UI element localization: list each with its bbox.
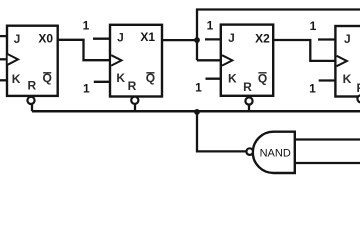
svg-text:R: R: [243, 80, 252, 94]
svg-text:1: 1: [83, 19, 90, 33]
flip-flop X3 label J: [344, 32, 351, 46]
flip-flop X1 clock triangle: [111, 55, 121, 65]
svg-text:1: 1: [309, 82, 316, 96]
wire X0 Q output to X1 clock: [56, 40, 111, 60]
wire reset rail: [32, 110, 360, 113]
flip-flop X2 reset bubble: [245, 97, 252, 104]
svg-text:J: J: [228, 31, 235, 45]
svg-text:X0: X0: [38, 31, 53, 45]
node A junction dot: [194, 37, 200, 43]
constant 1 at X3 J input: [310, 19, 317, 33]
svg-text:R: R: [27, 79, 36, 93]
flip-flop X0 label X0: [38, 31, 53, 45]
flip-flop X0 label J: [14, 32, 21, 46]
svg-text:K: K: [116, 71, 125, 85]
flip-flop X2 label Q-bar: [258, 71, 267, 85]
wire NAND output to reset rail node B: [197, 111, 247, 151]
constant 1 at X1 K input: [83, 82, 90, 96]
flip-flop X0 reset bubble: [27, 97, 34, 104]
wire NAND bottom input: [295, 162, 360, 164]
wire node A down to X2 clock: [197, 59, 222, 61]
flip-flop X0 label K: [12, 72, 21, 86]
svg-text:K: K: [228, 72, 237, 86]
flip-flop X3 label K: [343, 72, 352, 86]
flip-flop X3 reset bubble: [357, 95, 360, 102]
svg-text:X1: X1: [140, 30, 155, 44]
flip-flop X2 clock triangle: [222, 55, 232, 65]
flip-flop X0 box: [7, 26, 58, 96]
wire X2 Q output to X3 clock: [272, 40, 336, 61]
flip-flop X3 label R: [356, 81, 360, 95]
wire K input stub of X1: [94, 81, 111, 83]
flip-flop X1 label R: [128, 79, 137, 93]
wire J input to X0: [0, 35, 8, 37]
flip-flop X1 label X1: [140, 30, 155, 44]
svg-text:J: J: [344, 32, 351, 46]
flip-flop X2 box: [221, 25, 273, 96]
flip-flop X1 label K: [116, 71, 125, 85]
flip-flop X0 label R: [27, 79, 36, 93]
flip-flop X3 clock triangle: [337, 56, 347, 66]
svg-text:NAND: NAND: [260, 148, 291, 160]
constant 1 at X2 J input: [207, 19, 214, 33]
NAND gate U1 output bubble: [246, 148, 253, 155]
wire X1 reset bubble to reset rail: [134, 104, 136, 112]
svg-text:1: 1: [207, 19, 214, 33]
NAND gate U1 body (mirrored, pointing left): [253, 132, 295, 173]
flip-flop X0 clock triangle: [8, 54, 18, 65]
flip-flop X1 label J: [117, 31, 124, 45]
wire J input stub of X1: [93, 38, 111, 40]
flip-flop X1 reset bubble: [131, 97, 138, 104]
flip-flop X1 box: [110, 25, 162, 97]
svg-text:1: 1: [195, 81, 202, 95]
flip-flop X2 label R: [243, 80, 252, 94]
flip-flop X2 label J: [228, 31, 235, 45]
svg-text:J: J: [14, 32, 21, 46]
svg-text:1: 1: [83, 82, 90, 96]
constant 1 at X2 K input: [195, 81, 202, 95]
flip-flop X2 label K: [228, 72, 237, 86]
svg-text:K: K: [343, 72, 352, 86]
wire X1 Q output to node A: [161, 39, 197, 41]
wire K input stub of X3: [319, 79, 337, 81]
wire J input stub of X2: [205, 38, 222, 40]
wire X2 reset bubble to reset rail: [248, 105, 250, 112]
flip-flop X3 box: [335, 26, 360, 97]
node B junction dot on reset rail: [194, 109, 200, 115]
wire NAND top input: [295, 138, 360, 140]
flip-flop X1 label Q-bar: [146, 71, 155, 85]
flip-flop X2 label X2: [255, 31, 270, 45]
wire node A up to top rail going right: [197, 10, 360, 61]
constant 1 at X3 K input: [309, 82, 316, 96]
constant 1 at X1 J input: [83, 19, 90, 33]
svg-text:J: J: [117, 31, 124, 45]
wire K input to X0: [0, 79, 8, 81]
wire K input stub of X2: [206, 78, 223, 80]
svg-text:K: K: [12, 72, 21, 86]
svg-text:X2: X2: [255, 31, 270, 45]
wire clock input to X0: [0, 58, 8, 60]
svg-text:R: R: [356, 81, 360, 95]
flip-flop X0 label Q-bar: [43, 71, 52, 85]
svg-text:1: 1: [310, 19, 317, 33]
svg-text:R: R: [128, 79, 137, 93]
NAND gate U1 label: [260, 148, 291, 160]
wire X0 reset bubble to reset rail: [31, 104, 33, 112]
wire J input stub of X3: [318, 38, 336, 40]
